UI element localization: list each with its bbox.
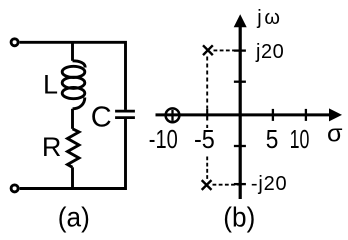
svg-text:j20: j20 (255, 41, 284, 63)
resistor R zigzag (68, 129, 80, 168)
tick +5 (272, 109, 274, 121)
wire right branch below capacitor and bottom rail (20, 119, 126, 189)
terminal top-left (11, 39, 18, 46)
tick j20 (234, 49, 246, 51)
wire between inductor and resistor (71, 109, 74, 129)
svg-text:ω: ω (264, 7, 280, 29)
dash crossing sigma axis at -5 (206, 109, 208, 121)
wire from resistor to bottom rail (71, 167, 74, 188)
svg-text:C: C (91, 102, 112, 134)
sigma axis (horizontal) (156, 113, 331, 116)
svg-text:10: 10 (290, 124, 310, 154)
dash below axis above -5 label (206, 125, 208, 128)
svg-text:L: L (43, 69, 58, 99)
tick +10 (305, 109, 307, 121)
dashed line vertical to lower pole (206, 157, 208, 180)
j-omega axis (vertical) (239, 26, 242, 199)
svg-text:R: R (42, 132, 62, 162)
wire top rail and right branch down to capacitor (20, 42, 126, 110)
tick j10 (234, 81, 246, 83)
inductor L coil (62, 61, 85, 109)
dashed line pole to j20 tick (214, 49, 239, 51)
capacitor C top plate (115, 110, 135, 113)
wire from top rail to inductor (71, 42, 74, 61)
dashed line pole to -j20 tick (213, 184, 239, 186)
pole X at -5+j20 (203, 45, 213, 55)
svg-text:-5: -5 (194, 124, 215, 154)
svg-text:-10: -10 (149, 124, 178, 154)
tick -j10 (234, 145, 246, 147)
j-omega axis arrowhead (234, 14, 247, 27)
capacitor C bottom plate (115, 116, 135, 119)
tick -j20 (234, 183, 246, 185)
tick -10 inside zero (171, 110, 173, 121)
sigma axis arrowhead (329, 108, 342, 121)
zero marker at -10 (166, 108, 180, 122)
svg-text:(b): (b) (223, 202, 255, 233)
terminal bottom-left (11, 185, 18, 192)
svg-text:j: j (256, 7, 261, 29)
pole X at -5-j20 (202, 180, 212, 190)
svg-text:(a): (a) (58, 202, 90, 233)
svg-text:σ: σ (327, 121, 343, 148)
svg-text:-j20: -j20 (251, 173, 288, 195)
svg-text:5: 5 (266, 124, 279, 154)
dashed line vertical pole to axis (upper) (206, 57, 208, 109)
